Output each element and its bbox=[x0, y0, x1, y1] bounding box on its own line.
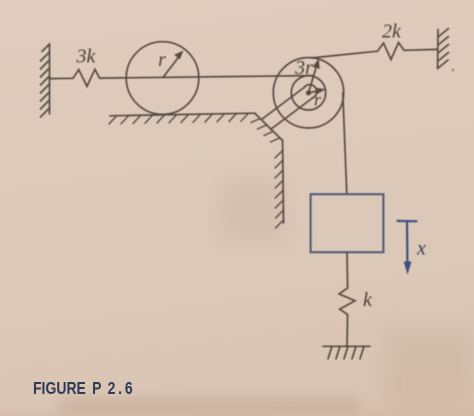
ghost bleed-through patch center bbox=[220, 180, 285, 240]
svg-text:2k: 2k bbox=[382, 21, 402, 43]
svg-text:3k: 3k bbox=[76, 46, 97, 68]
wire disk to pulley bbox=[100, 76, 313, 79]
mass block bbox=[311, 194, 384, 252]
disk r (rolling cylinder) bbox=[126, 42, 199, 115]
svg-text:3r: 3r bbox=[294, 57, 313, 79]
svg-text:r: r bbox=[158, 49, 166, 71]
pulley inner r bbox=[291, 76, 325, 110]
ghost bleed-through patch bottom right bbox=[385, 330, 474, 410]
spring k bbox=[339, 288, 355, 315]
figure caption bbox=[33, 380, 135, 398]
arrow r of pulley bbox=[309, 88, 326, 95]
arrow 3r bbox=[309, 59, 320, 93]
ghost bleed-through band bottom bbox=[60, 398, 360, 412]
arrow x (displacement) bbox=[398, 221, 417, 275]
rod spring k to ground bbox=[346, 315, 349, 347]
pulley hub dot bbox=[306, 90, 311, 95]
speck near right wall bbox=[452, 69, 454, 71]
cable pulley to spring 2k bbox=[312, 51, 378, 58]
wall left bbox=[41, 44, 50, 117]
svg-text:r: r bbox=[314, 90, 322, 110]
ground bottom bbox=[323, 346, 370, 359]
pulley outer 3r bbox=[273, 58, 343, 128]
hatches ground under disk bbox=[109, 114, 248, 124]
spring 2k bbox=[378, 43, 438, 60]
spring 3k bbox=[50, 69, 100, 86]
ground under disk with corner wall bbox=[110, 113, 284, 223]
rod mass to spring k bbox=[346, 252, 349, 288]
wall right bbox=[438, 29, 449, 69]
hatches corner diagonal bbox=[251, 119, 280, 143]
bracket link to pulley hub bbox=[262, 85, 317, 130]
cable pulley to mass bbox=[343, 93, 347, 194]
arrow r of disk bbox=[163, 51, 184, 78]
svg-text:k: k bbox=[363, 289, 373, 311]
hatches corner vertical bbox=[275, 150, 284, 228]
svg-text:x: x bbox=[416, 239, 426, 260]
